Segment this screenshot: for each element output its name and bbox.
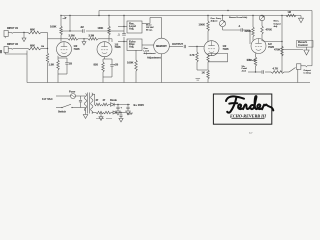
mark scan speck (0, 50, 2, 53)
resistor R21 47ohm (102, 99, 109, 106)
tube V2 1/2 7025 (97, 42, 112, 57)
wire R1 to grid node (41, 33, 48, 39)
svg-text:1K: 1K (202, 71, 205, 75)
diode D2 heater (111, 111, 126, 114)
resistor R16 1.5K cathode V4 (247, 53, 257, 71)
wire B+ sub-rail (60, 15, 301, 32)
svg-text:7025: 7025 (115, 45, 121, 49)
svg-text:INPUT #2: INPUT #2 (7, 43, 19, 46)
svg-text:Mem.: Mem. (274, 21, 280, 23)
capacitor C3 25uF bypass V2 (103, 59, 119, 77)
svg-text:MEMORY: MEMORY (156, 45, 167, 48)
wire secondary taps (92, 94, 95, 112)
ground mark (196, 79, 201, 81)
resistor R14 100K plate V4 (245, 16, 255, 41)
svg-text:Record Level Adj.: Record Level Adj. (229, 16, 248, 19)
svg-text:to Amp: to Amp (304, 72, 312, 75)
label heater labels (96, 112, 133, 119)
svg-text:100K: 100K (127, 61, 133, 65)
capacitor C1 .02 (80, 25, 84, 33)
svg-text:47: 47 (96, 99, 99, 102)
resistor R9 100K tone (127, 50, 137, 83)
svg-text:220K: 220K (245, 29, 251, 33)
svg-text:100K: 100K (98, 27, 104, 30)
memory unit (154, 38, 170, 54)
svg-text:68K: 68K (30, 28, 35, 32)
label 117 VAC (42, 97, 53, 101)
capacitor C5 output (184, 45, 186, 48)
ground R17 (299, 16, 304, 23)
svg-text:Output: Output (274, 22, 281, 25)
resistor R15 470K screen (259, 15, 272, 40)
wire coupling plate line (61, 30, 124, 31)
resistor R23 1M grid leak (41, 46, 49, 83)
label B+ 150V (134, 103, 145, 107)
svg-text:.1: .1 (238, 24, 241, 28)
label output to amp (304, 69, 312, 75)
label INPUT #1 (7, 27, 19, 30)
svg-text:470K: 470K (274, 48, 280, 52)
svg-text:7025: 7025 (223, 47, 229, 51)
svg-text:Level: Level (144, 51, 150, 53)
svg-text:B+ 150V: B+ 150V (134, 103, 145, 107)
ground heater tap (99, 113, 103, 121)
svg-text:3.3M: 3.3M (89, 35, 95, 38)
capacitor C2 25uF bypass V1 (58, 58, 72, 74)
svg-text:A-7: A-7 (249, 132, 253, 135)
box Fender logo frame (213, 94, 271, 124)
resistor R1 68K (28, 28, 41, 34)
wire J2 to R2 (13, 48, 28, 50)
svg-text:.02: .02 (80, 25, 84, 29)
switch SW1 (58, 104, 73, 113)
logo Fender script (226, 96, 273, 113)
wire output line (248, 68, 296, 73)
capacitor C4 osc (118, 33, 126, 37)
label ECHO-REVERB III (229, 113, 266, 118)
svg-text:Fuse: Fuse (69, 90, 76, 94)
wire ground bus (27, 82, 310, 84)
jack J3 output (297, 63, 313, 69)
fuse F1 (69, 90, 76, 99)
tube V4 1/2 7025 (251, 39, 266, 54)
box reverb control (297, 40, 314, 47)
svg-text:100K: 100K (199, 23, 205, 27)
resistor R19 4.7K (271, 67, 284, 74)
svg-text:Control: Control (298, 43, 308, 47)
svg-text:Osc.: Osc. (144, 48, 149, 50)
diode D1 (109, 99, 118, 106)
label B+ mark (63, 17, 67, 19)
resistor R8 820 cathode V2 (94, 57, 105, 83)
ground transformer (83, 108, 88, 119)
wire oscillator drop (123, 16, 125, 83)
svg-text:820: 820 (94, 63, 99, 67)
svg-text:Adj.: Adj. (129, 45, 134, 49)
svg-text:Osc. Freq.: Osc. Freq. (211, 18, 222, 20)
svg-text:1.5K: 1.5K (49, 63, 55, 67)
resistor R6 1.5K cathode V1 (49, 56, 60, 83)
svg-text:117 VAC: 117 VAC (42, 97, 53, 101)
svg-text:.1: .1 (118, 33, 121, 37)
svg-text:+: + (121, 107, 123, 110)
wire into box2 (118, 41, 127, 42)
svg-text:INPUT #1: INPUT #1 (7, 27, 19, 30)
capacitor C9 filter (116, 104, 123, 115)
transformer T1 secondary (91, 93, 93, 114)
label osc adj text (144, 48, 156, 55)
label record level adj (229, 16, 248, 19)
svg-text:Adjustment: Adjustment (147, 57, 161, 60)
wire into box1 (118, 26, 127, 27)
wire heater line (95, 112, 97, 114)
resistor R12 cathode V3 upper (207, 53, 209, 62)
resistor R20 47ohm (95, 99, 102, 106)
capacitor C7 out (262, 70, 264, 73)
svg-text:Adjustment: Adjustment (144, 52, 156, 55)
tube V3 1/2 7025 (204, 41, 219, 56)
wire box1 to memory (142, 18, 162, 39)
transformer T1 primary (84, 94, 86, 112)
capacitor C11 heater (119, 112, 123, 122)
resistor R17 1M (281, 11, 296, 17)
label V4 1/2 7025 (268, 42, 274, 49)
box record level control (127, 21, 142, 33)
svg-text:60 cyc.: 60 cyc. (146, 30, 153, 32)
pot record level (219, 15, 241, 30)
svg-text:Adjust: Adjust (211, 20, 218, 23)
wire jack ground drop (5, 51, 27, 83)
wire jack to ground bus (297, 69, 299, 82)
wire vib drop (242, 59, 257, 73)
svg-text:4.7K: 4.7K (273, 67, 279, 71)
svg-text:47: 47 (103, 99, 106, 102)
wire memory ground stem (147, 54, 162, 83)
wire B+ out (114, 104, 130, 106)
resistor R4 3.3M grid row (57, 34, 78, 41)
svg-text:+25: +25 (114, 63, 119, 67)
resistor R10 4.7K (190, 46, 208, 70)
svg-text:6.3V: 6.3V (127, 112, 133, 116)
label osc freq text (211, 18, 222, 23)
wire cathode loop V3 (208, 53, 228, 61)
resistor R18 470K (274, 46, 283, 56)
jack J1 (4, 31, 13, 39)
tube V1 1/2 7025 (57, 42, 72, 57)
svg-text:4.7K: 4.7K (190, 54, 195, 57)
wire box2 to memory (142, 44, 154, 46)
transformer T1 core (88, 93, 90, 114)
svg-text:Switch: Switch (58, 110, 67, 113)
svg-text:1M: 1M (41, 46, 44, 48)
svg-text:Adj.: Adj. (129, 27, 134, 31)
label INPUT #2 (7, 43, 19, 46)
label memory output adj (274, 21, 281, 28)
capacitor C10 filter (126, 104, 131, 115)
resistor R5 3.3M grid row (78, 35, 112, 42)
wire B+ bus (top rail) (98, 10, 312, 16)
wire memory output (169, 46, 204, 48)
label V2 1/2 7025 (115, 42, 121, 49)
resistor R7 100K plate V2 (98, 16, 111, 42)
ground grid divider (82, 38, 86, 45)
svg-text:1M: 1M (288, 11, 291, 14)
resistor R3 100K plate V1 (50, 16, 62, 42)
mark page smudge (249, 132, 253, 135)
svg-text:ECHO-REVERB III: ECHO-REVERB III (229, 113, 266, 118)
label OUTPUT (172, 42, 183, 46)
svg-text:Diode: Diode (110, 99, 118, 102)
svg-text:OUTPUT: OUTPUT (172, 42, 183, 46)
svg-text:Jack: Jack (242, 71, 247, 73)
wire right rail (311, 11, 313, 64)
wire AC top (56, 95, 86, 97)
wire J1 to R1 (13, 32, 28, 34)
resistor R13 1K cathode V3 (202, 62, 210, 83)
resistor R2 68K (28, 44, 41, 50)
box echo disc control (127, 39, 142, 51)
svg-text:100K: 100K (50, 25, 56, 29)
potentiometer reverb ground (282, 47, 309, 55)
capacitor C8 line (79, 96, 82, 108)
wire reverb feed (281, 41, 282, 72)
svg-text:3.3M: 3.3M (69, 34, 76, 38)
svg-text:25: 25 (69, 62, 72, 66)
svg-text:7025: 7025 (74, 47, 80, 51)
svg-text:470K: 470K (266, 28, 272, 32)
svg-text:Adj.: Adj. (274, 25, 279, 28)
label V1 1/2 7025 (74, 44, 80, 51)
jack J2 (4, 47, 13, 55)
wire AC bottom (56, 107, 86, 109)
label V3 1/2 7025 (223, 44, 229, 51)
capacitor C6 coupling (238, 24, 250, 44)
resistor R22 heater (96, 111, 111, 114)
label motor text (146, 24, 154, 32)
svg-text:68K: 68K (30, 44, 35, 48)
ground jack1 (22, 32, 26, 42)
wire grid feed (41, 39, 57, 49)
resistor R11 100K plate V3 (199, 16, 210, 42)
wire plate out V4 (262, 16, 283, 42)
